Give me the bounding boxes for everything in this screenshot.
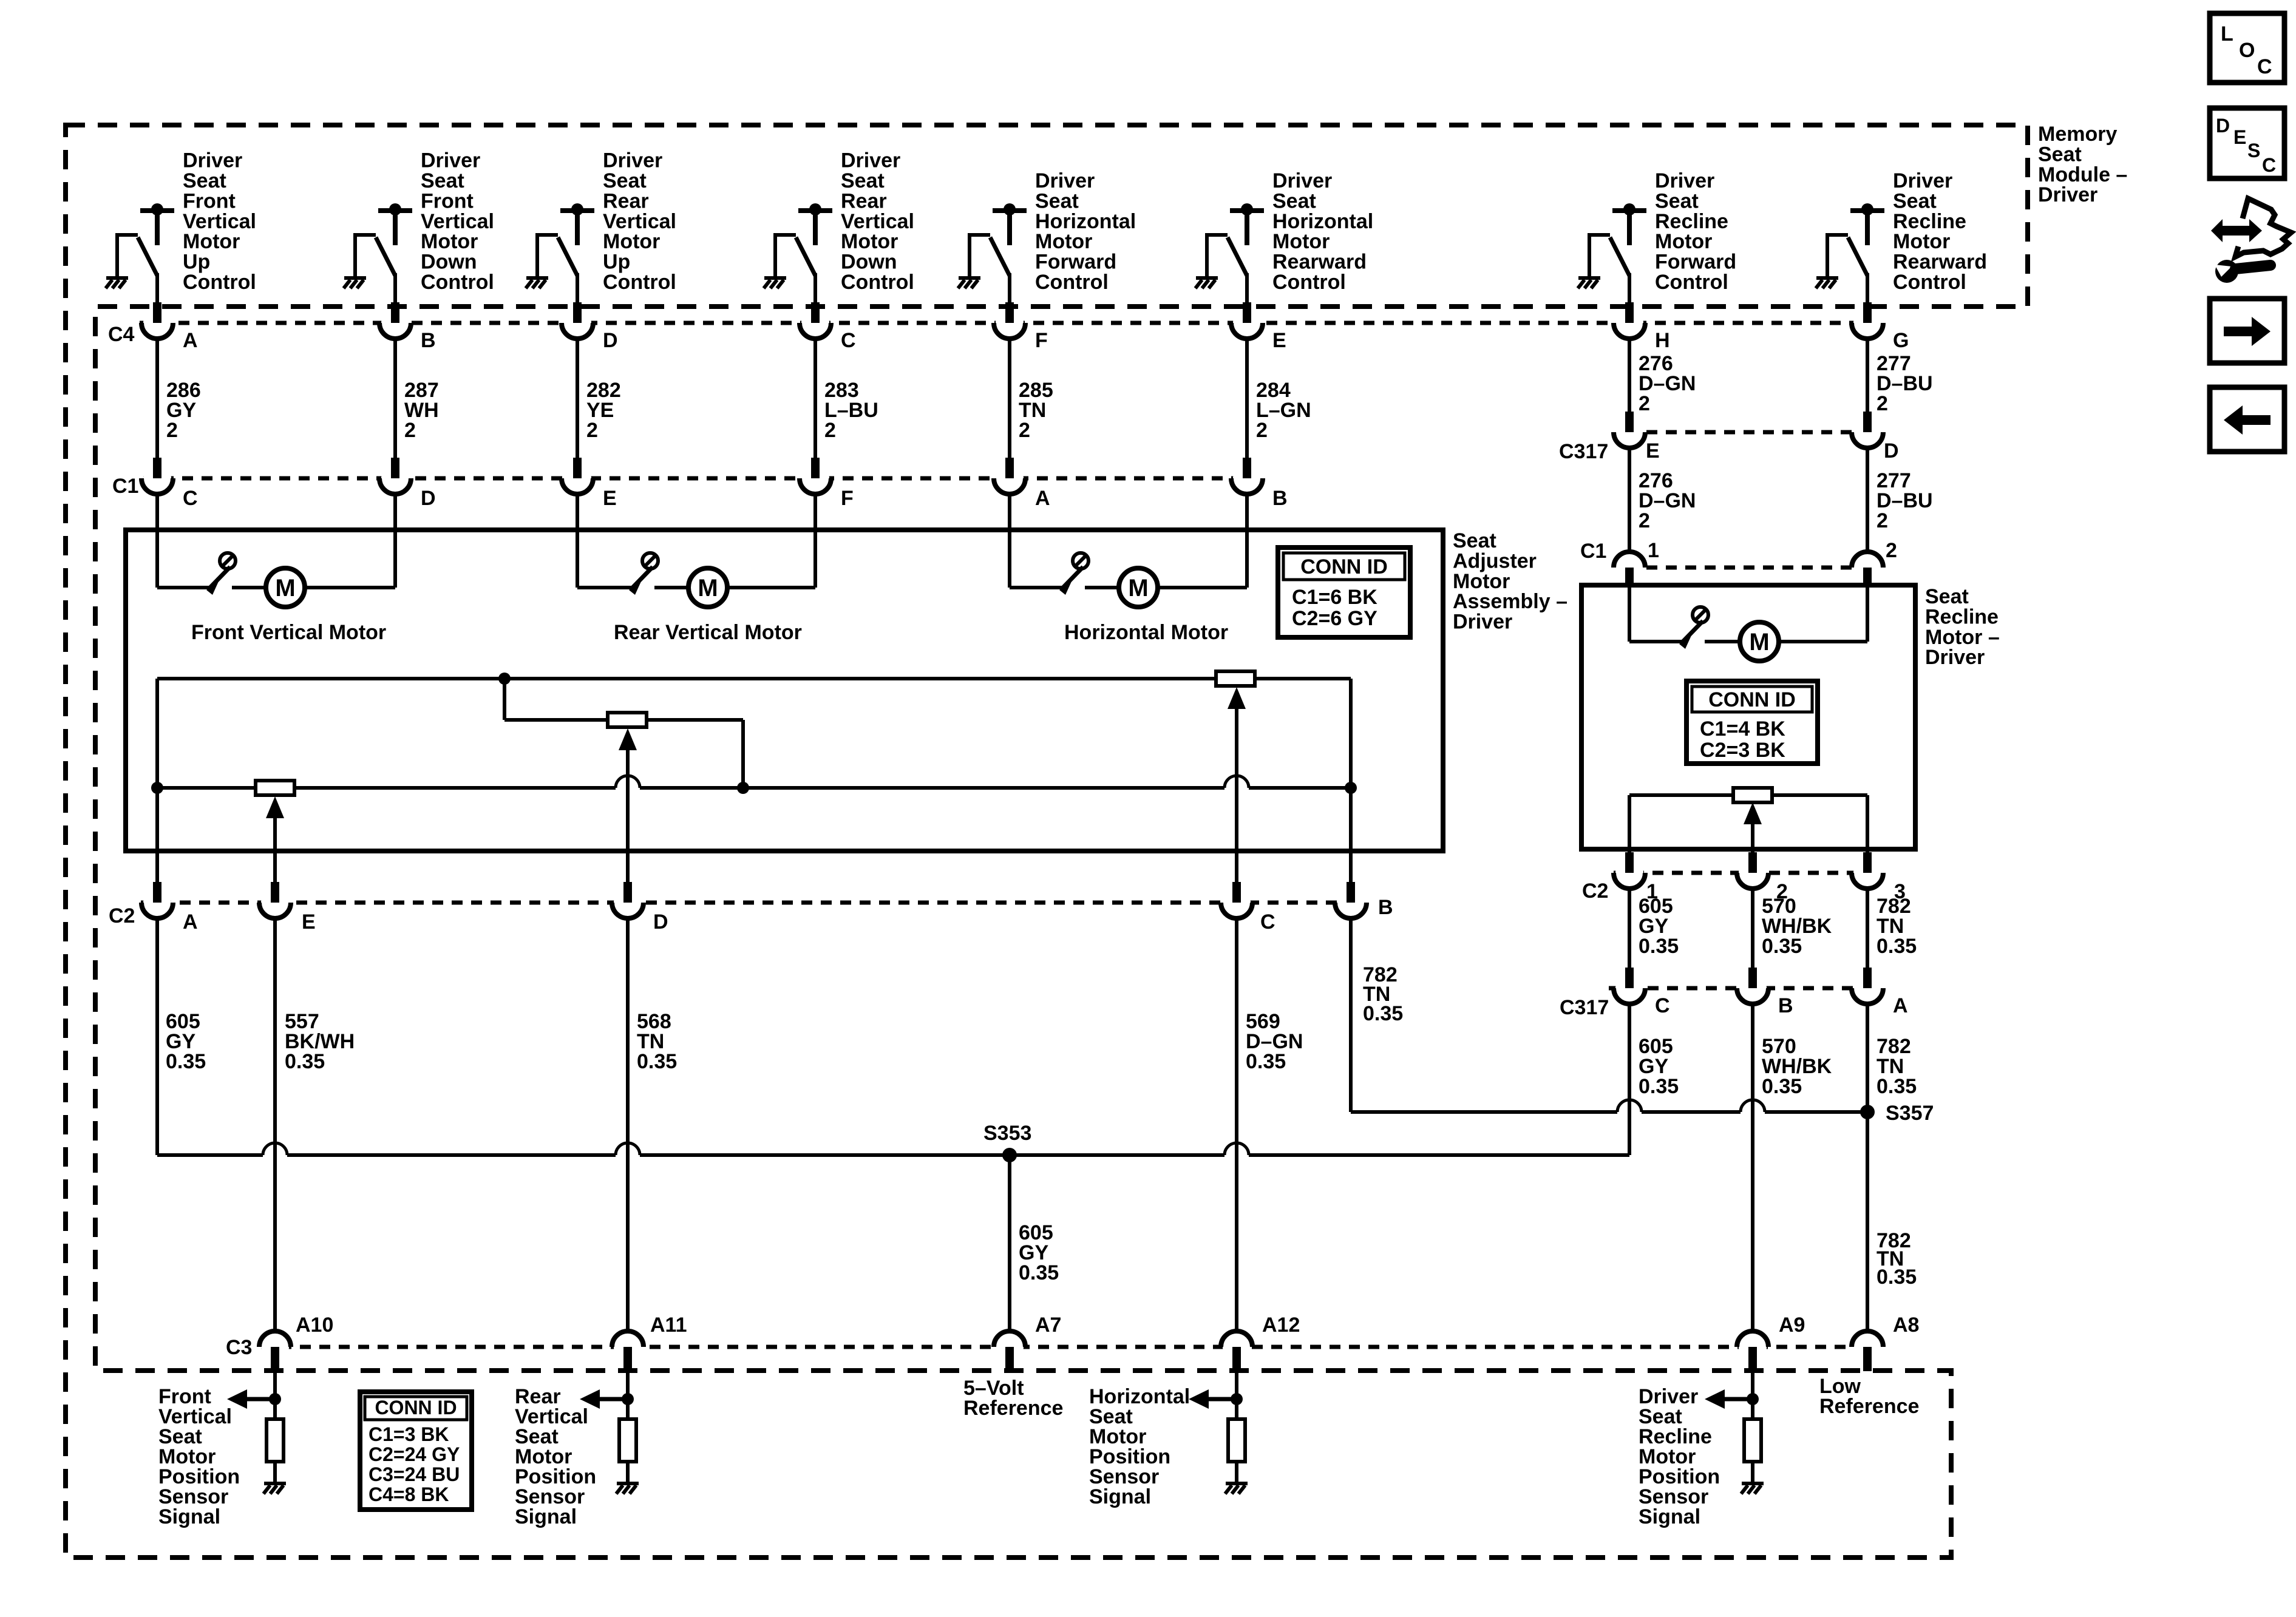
splice S357 xyxy=(1860,1105,1875,1119)
svg-text:Driver: Driver xyxy=(1035,169,1095,192)
svg-text:C2=24 GY: C2=24 GY xyxy=(369,1443,460,1465)
C4 pin H xyxy=(1614,302,1645,339)
svg-text:Up: Up xyxy=(603,251,630,274)
svg-text:C2: C2 xyxy=(109,904,135,927)
svg-text:C1=6 BK: C1=6 BK xyxy=(1292,586,1377,609)
svg-text:A: A xyxy=(1893,994,1908,1017)
S7 Driver Seat Recline Motor Forward Control switch xyxy=(1589,203,1646,308)
wire 286 xyxy=(155,339,159,458)
potentiometer rear vertical position sensor xyxy=(608,713,647,727)
C2 pin C xyxy=(1221,882,1252,918)
svg-text:Motor: Motor xyxy=(1035,230,1092,253)
svg-text:Driver: Driver xyxy=(1453,611,1512,634)
CONN ID box (module bottom) xyxy=(360,1392,472,1510)
C4 pin A xyxy=(141,302,173,339)
crossover hop at rear wiper xyxy=(616,776,640,788)
svg-text:Recline: Recline xyxy=(1925,605,1999,628)
svg-text:C: C xyxy=(1260,910,1275,934)
rear vertical position sensor feed xyxy=(503,679,506,720)
wire 283 xyxy=(813,339,817,458)
svg-text:E: E xyxy=(603,487,617,510)
svg-text:Driver: Driver xyxy=(183,149,242,172)
svg-text:E: E xyxy=(2233,126,2246,148)
svg-text:2: 2 xyxy=(404,419,416,442)
svg-text:Recline: Recline xyxy=(1655,210,1728,233)
svg-text:Horizontal Motor: Horizontal Motor xyxy=(1064,621,1228,644)
C4 pin E xyxy=(1231,302,1263,339)
wiper arrow recline sensor xyxy=(1744,802,1762,824)
C4 pin D xyxy=(562,302,593,339)
wire 276 D-GN to C1 xyxy=(1628,448,1631,553)
icon back arrow box xyxy=(2210,387,2284,452)
svg-text:Motor: Motor xyxy=(183,230,240,253)
svg-text:C: C xyxy=(183,487,198,510)
svg-text:Seat: Seat xyxy=(603,169,647,192)
svg-text:Motor: Motor xyxy=(1893,230,1950,253)
svg-text:C2=3 BK: C2=3 BK xyxy=(1700,739,1785,762)
svg-text:0.35: 0.35 xyxy=(1019,1261,1059,1284)
hop over 557 wire xyxy=(263,1143,287,1155)
motor M Seat Recline Motor xyxy=(1740,622,1779,661)
svg-text:C317: C317 xyxy=(1560,996,1609,1019)
A9 driver seat recline motor position sensor signal input, resistor, ground xyxy=(1751,1371,1754,1419)
svg-text:Seat: Seat xyxy=(841,169,885,192)
svg-text:Seat: Seat xyxy=(1893,189,1937,212)
wire recline pot right down xyxy=(1866,795,1869,852)
wire C1-B to motor xyxy=(1245,494,1249,588)
wire C1-C to motor xyxy=(155,494,159,588)
svg-text:0.35: 0.35 xyxy=(1363,1002,1403,1025)
Memory Seat Module - Driver module dashed outline xyxy=(66,125,2028,1558)
svg-text:Seat: Seat xyxy=(2038,143,2082,166)
C1 pin B xyxy=(1231,458,1263,494)
C2 pin B xyxy=(1335,882,1367,918)
svg-text:S357: S357 xyxy=(1886,1102,1934,1125)
wire 605 GY from C317-C down xyxy=(1628,1004,1631,1155)
C1 pin C xyxy=(141,458,173,494)
hop over 570 wire xyxy=(1741,1100,1765,1112)
wire 285 xyxy=(1008,339,1011,458)
svg-text:Rear: Rear xyxy=(841,189,887,212)
svg-text:Rear: Rear xyxy=(603,189,649,212)
svg-text:0.35: 0.35 xyxy=(1877,935,1917,958)
svg-text:0.35: 0.35 xyxy=(1762,935,1802,958)
svg-text:Control: Control xyxy=(1893,271,1966,294)
svg-text:C2=6 GY: C2=6 GY xyxy=(1292,607,1377,630)
hop over 605 wire xyxy=(1617,1100,1642,1112)
svg-text:M: M xyxy=(275,575,295,602)
svg-text:D: D xyxy=(421,487,436,510)
recline position sensor xyxy=(1629,793,1733,797)
svg-text:H: H xyxy=(1655,329,1670,352)
wire 277 D-BU upper xyxy=(1866,339,1869,413)
C317 pin C xyxy=(1614,968,1645,1004)
wire recline pin1 to motor xyxy=(1628,586,1631,642)
svg-text:Assembly –: Assembly – xyxy=(1453,590,1567,613)
wire C1-F to motor xyxy=(813,494,817,588)
svg-text:Motor: Motor xyxy=(603,230,660,253)
C3 pin A9 xyxy=(1737,1331,1768,1371)
svg-text:Rearward: Rearward xyxy=(1893,251,1987,274)
connector C1 row (seat recline motor, pins 1 and 2) xyxy=(1646,566,1852,570)
svg-text:Front: Front xyxy=(183,189,236,212)
svg-text:Down: Down xyxy=(421,251,477,274)
svg-text:Down: Down xyxy=(841,251,897,274)
S4 Driver Seat Rear Vertical Motor Down Control switch xyxy=(775,203,832,308)
wire 569 D-GN wiper horizontal xyxy=(1235,709,1238,882)
605 GY 5-volt reference line xyxy=(157,1153,263,1157)
horizontal motor M3 circuit xyxy=(1010,586,1063,589)
wire C1-A to motor xyxy=(1008,494,1011,588)
icon DESC box xyxy=(2210,108,2284,178)
A11 rear vertical seat motor position sensor signal input, resistor, ground xyxy=(626,1371,630,1419)
svg-text:Rearward: Rearward xyxy=(1272,251,1367,274)
svg-text:C4=8 BK: C4=8 BK xyxy=(369,1483,449,1505)
C2 pin A xyxy=(141,882,173,918)
splice S353 xyxy=(1002,1148,1017,1162)
svg-text:C317: C317 xyxy=(1559,440,1608,463)
svg-text:D: D xyxy=(653,910,668,934)
thermal protector front vertical motor xyxy=(206,553,236,595)
C1 pin E xyxy=(562,458,593,494)
wire 570 WH/BK down to A9 xyxy=(1751,1004,1754,1331)
connector C4 row xyxy=(140,321,1867,325)
svg-text:Motor: Motor xyxy=(1453,570,1510,593)
svg-text:2: 2 xyxy=(166,419,178,442)
svg-text:Driver: Driver xyxy=(1272,169,1332,192)
C1 recline pin 2 xyxy=(1852,552,1883,587)
svg-text:0.35: 0.35 xyxy=(1762,1075,1802,1098)
wire 568 TN down to A11 xyxy=(626,918,630,1331)
wire 782 TN down to A8 xyxy=(1866,1004,1869,1331)
wiper arrow rear vertical sensor xyxy=(619,728,637,750)
svg-text:Vertical: Vertical xyxy=(421,210,494,233)
svg-text:Vertical: Vertical xyxy=(603,210,676,233)
wire 557 BK/WH wiper front xyxy=(273,818,277,882)
svg-text:E: E xyxy=(302,910,316,934)
icon LOC box xyxy=(2210,13,2284,83)
C2 pin E xyxy=(259,882,291,918)
CONN ID box (recline) xyxy=(1686,681,1818,764)
svg-text:C3=24 BU: C3=24 BU xyxy=(369,1463,460,1485)
svg-text:A12: A12 xyxy=(1262,1314,1300,1337)
svg-text:Front: Front xyxy=(421,189,474,212)
wiper arrow front vertical sensor xyxy=(266,796,284,818)
wire 287 xyxy=(393,339,397,458)
svg-text:Control: Control xyxy=(1655,271,1728,294)
C1 pin A xyxy=(994,458,1025,494)
crossover hop at horizontal wiper xyxy=(1224,776,1249,788)
svg-text:Vertical: Vertical xyxy=(841,210,914,233)
svg-text:D: D xyxy=(2216,115,2230,137)
svg-text:A9: A9 xyxy=(1779,1314,1805,1337)
svg-text:A: A xyxy=(1035,487,1050,510)
svg-text:2: 2 xyxy=(1877,509,1888,532)
svg-text:Motor: Motor xyxy=(841,230,898,253)
potentiometer front vertical position sensor xyxy=(256,781,294,795)
svg-text:Recline: Recline xyxy=(1893,210,1966,233)
motor M Front Vertical Motor xyxy=(266,568,305,607)
svg-text:2: 2 xyxy=(1639,509,1650,532)
svg-text:S353: S353 xyxy=(983,1122,1031,1145)
low reference line (pot line) xyxy=(157,786,256,790)
S5 Driver Seat Horizontal Motor Forward Control switch xyxy=(970,203,1027,308)
svg-text:Control: Control xyxy=(1272,271,1346,294)
svg-text:Front Vertical Motor: Front Vertical Motor xyxy=(191,621,386,644)
wire 557 BK/WH down to A10 xyxy=(273,918,277,1331)
svg-text:Control: Control xyxy=(421,271,494,294)
svg-text:C: C xyxy=(841,329,856,352)
C3 pin A11 xyxy=(612,1331,644,1371)
wire recline wiper down xyxy=(1751,824,1754,852)
svg-text:Signal: Signal xyxy=(1639,1505,1700,1528)
potentiometer horizontal position sensor xyxy=(1216,671,1255,686)
svg-text:B: B xyxy=(1272,487,1288,510)
C3 pin A12 xyxy=(1221,1331,1252,1371)
C317 pin A xyxy=(1852,968,1883,1004)
motor M Horizontal Motor xyxy=(1119,568,1158,607)
svg-text:Seat: Seat xyxy=(183,169,226,192)
connector C317 row (lower, pins C B A) xyxy=(1609,986,1869,991)
wire 605 GY to A7 xyxy=(1008,1155,1011,1331)
C2 recline pin 2 xyxy=(1737,852,1768,889)
junction on 5V line xyxy=(498,673,511,685)
svg-text:Seat: Seat xyxy=(1925,585,1969,608)
svg-text:Module –: Module – xyxy=(2038,163,2127,186)
wire C1-E to motor xyxy=(576,494,579,588)
svg-text:C1: C1 xyxy=(1580,540,1606,563)
svg-text:Rear Vertical Motor: Rear Vertical Motor xyxy=(614,621,802,644)
connector C3 row xyxy=(261,1345,1869,1349)
thermal protector horizontal motor xyxy=(1059,553,1089,595)
svg-text:Memory: Memory xyxy=(2038,123,2117,146)
wire 282 xyxy=(576,339,579,458)
svg-text:Driver: Driver xyxy=(841,149,900,172)
rear vertical motor M2 circuit xyxy=(577,586,633,589)
C317 pin D xyxy=(1852,412,1883,448)
svg-text:0.35: 0.35 xyxy=(1877,1266,1917,1289)
C4 pin C xyxy=(800,302,831,339)
C3 pin A10 xyxy=(259,1331,291,1371)
svg-text:Motor: Motor xyxy=(1655,230,1712,253)
C2 pin D xyxy=(612,882,644,918)
svg-text:E: E xyxy=(1646,439,1660,463)
svg-text:Seat: Seat xyxy=(1655,189,1699,212)
svg-text:C2: C2 xyxy=(1582,880,1608,903)
svg-text:C1=4 BK: C1=4 BK xyxy=(1700,717,1785,741)
svg-text:A: A xyxy=(183,910,198,934)
svg-text:Driver: Driver xyxy=(1925,646,1985,669)
svg-text:Driver: Driver xyxy=(1893,169,1952,192)
svg-text:D: D xyxy=(1884,439,1899,463)
recline motor M4 circuit xyxy=(1629,640,1683,643)
svg-text:Reference: Reference xyxy=(1819,1395,1919,1418)
S1 Driver Seat Front Vertical Motor Up Control switch xyxy=(117,203,174,308)
C2 recline pin 3 xyxy=(1852,852,1883,889)
svg-text:Signal: Signal xyxy=(1089,1485,1151,1508)
A12 horizontal seat motor position sensor signal input, resistor, ground xyxy=(1235,1371,1238,1419)
svg-text:G: G xyxy=(1893,329,1909,352)
svg-text:2: 2 xyxy=(1877,392,1888,415)
thermal protector recline motor xyxy=(1679,607,1708,649)
C317 pin B xyxy=(1737,968,1768,1004)
svg-text:E: E xyxy=(1272,329,1286,352)
svg-text:Driver: Driver xyxy=(421,149,480,172)
wiper arrow horizontal sensor xyxy=(1228,687,1246,709)
svg-text:O: O xyxy=(2239,39,2255,62)
svg-text:Motor: Motor xyxy=(421,230,478,253)
svg-text:Signal: Signal xyxy=(515,1505,577,1528)
C3 pin A8 xyxy=(1852,1331,1883,1371)
svg-text:Motor –: Motor – xyxy=(1925,626,2000,649)
hop over 568 wire xyxy=(616,1143,640,1155)
svg-text:C: C xyxy=(1655,994,1670,1017)
S2 Driver Seat Front Vertical Motor Down Control switch xyxy=(355,203,412,308)
C4 pin F xyxy=(994,302,1025,339)
svg-text:F: F xyxy=(1035,329,1048,352)
svg-text:Forward: Forward xyxy=(1035,251,1116,274)
C2 recline pin 1 xyxy=(1614,852,1645,889)
wire 605 GY to C317 xyxy=(1628,889,1631,968)
svg-text:2: 2 xyxy=(1019,419,1030,442)
svg-text:M: M xyxy=(698,575,718,602)
svg-text:C: C xyxy=(2257,55,2272,78)
svg-text:B: B xyxy=(1378,896,1393,919)
svg-text:2: 2 xyxy=(824,419,836,442)
svg-text:Control: Control xyxy=(1035,271,1109,294)
wire C2-B vertical (782 TN) xyxy=(1349,788,1353,882)
wire 605 GY down to splice line xyxy=(155,918,159,1155)
svg-text:C: C xyxy=(2262,154,2276,176)
CONN ID box (seat adjuster) xyxy=(1278,547,1410,637)
svg-text:Horizontal: Horizontal xyxy=(1035,210,1136,233)
svg-text:A11: A11 xyxy=(650,1314,687,1337)
svg-text:C1=3 BK: C1=3 BK xyxy=(369,1423,449,1445)
svg-text:Motor: Motor xyxy=(1272,230,1330,253)
connector C2 row (seat adjuster) xyxy=(141,901,1351,905)
svg-text:Seat: Seat xyxy=(421,169,464,192)
svg-text:0.35: 0.35 xyxy=(1639,1075,1679,1098)
C1 pin D xyxy=(379,458,411,494)
C4 pin B xyxy=(379,302,411,339)
svg-text:Driver: Driver xyxy=(1655,169,1714,192)
svg-text:L: L xyxy=(2221,22,2233,46)
svg-text:CONN ID: CONN ID xyxy=(375,1397,457,1419)
svg-text:D: D xyxy=(603,329,618,352)
svg-text:B: B xyxy=(421,329,436,352)
Seat Adjuster Motor Assembly - Driver box xyxy=(126,530,1443,851)
svg-text:C3: C3 xyxy=(226,1336,252,1359)
svg-text:Control: Control xyxy=(603,271,676,294)
svg-text:2: 2 xyxy=(1256,419,1268,442)
wire 276 D-GN upper xyxy=(1628,339,1631,413)
svg-text:Seat: Seat xyxy=(1272,189,1316,212)
hop over 569 wire xyxy=(1224,1143,1249,1155)
motor M Rear Vertical Motor xyxy=(688,568,727,607)
connector C317 row (upper, pins E and D) xyxy=(1646,430,1852,435)
svg-text:Vertical: Vertical xyxy=(183,210,256,233)
svg-text:C4: C4 xyxy=(108,323,135,346)
svg-text:Signal: Signal xyxy=(158,1505,220,1528)
wire 569 D-GN down to A12 xyxy=(1235,918,1238,1331)
svg-text:2: 2 xyxy=(1639,392,1650,415)
svg-text:C1: C1 xyxy=(112,475,138,498)
wire C2-A vertical (605 GY) xyxy=(155,679,159,882)
Seat Recline Motor - Driver box xyxy=(1581,585,1915,849)
svg-text:2: 2 xyxy=(586,419,598,442)
svg-text:0.35: 0.35 xyxy=(1639,935,1679,958)
5-volt reference line inside adjuster box xyxy=(157,677,1216,680)
svg-text:Up: Up xyxy=(183,251,210,274)
svg-text:S: S xyxy=(2247,140,2260,161)
icon wrench / component adjust view xyxy=(2235,198,2291,257)
svg-text:Forward: Forward xyxy=(1655,251,1736,274)
svg-text:A: A xyxy=(183,329,198,352)
C3 pin A7 xyxy=(994,1331,1025,1371)
svg-text:Adjuster: Adjuster xyxy=(1453,549,1537,572)
svg-text:Seat: Seat xyxy=(1453,529,1496,552)
svg-text:A8: A8 xyxy=(1893,1314,1919,1337)
svg-text:Seat: Seat xyxy=(1035,189,1079,212)
782 TN low reference line xyxy=(1349,918,1353,1112)
icon forward arrow box xyxy=(2210,299,2284,363)
wire C1-D to motor xyxy=(393,494,397,588)
C317 pin E xyxy=(1614,412,1645,448)
svg-text:0.35: 0.35 xyxy=(285,1050,325,1073)
svg-text:B: B xyxy=(1778,994,1793,1017)
svg-text:1: 1 xyxy=(1648,539,1659,562)
svg-text:Driver: Driver xyxy=(603,149,662,172)
C4 pin G xyxy=(1852,302,1883,339)
front vertical motor M1 circuit xyxy=(157,586,210,589)
wire 782 TN to C317 xyxy=(1866,889,1869,968)
svg-text:CONN ID: CONN ID xyxy=(1300,555,1388,578)
svg-text:0.35: 0.35 xyxy=(637,1050,677,1073)
connector C1 row (seat adjuster) xyxy=(143,476,1247,481)
S3 Driver Seat Rear Vertical Motor Up Control switch xyxy=(537,203,594,308)
svg-text:Control: Control xyxy=(183,271,256,294)
svg-text:0.35: 0.35 xyxy=(1877,1075,1917,1098)
svg-text:0.35: 0.35 xyxy=(1246,1050,1286,1073)
junction horizontal sensor right xyxy=(1345,782,1357,794)
wire 568 TN wiper rear xyxy=(626,750,630,882)
svg-text:M: M xyxy=(1128,575,1148,602)
svg-text:A10: A10 xyxy=(296,1314,333,1337)
C1 pin F xyxy=(800,458,831,494)
wire recline pot left down xyxy=(1628,795,1631,852)
svg-text:M: M xyxy=(1749,629,1769,656)
junction 5V vertical / pot line xyxy=(151,782,163,794)
svg-text:A7: A7 xyxy=(1035,1314,1061,1337)
C1 recline pin 1 xyxy=(1614,552,1645,587)
svg-text:0.35: 0.35 xyxy=(166,1050,206,1073)
svg-text:F: F xyxy=(841,487,854,510)
junction rear sensor to low ref line xyxy=(737,782,749,794)
svg-text:Horizontal: Horizontal xyxy=(1272,210,1373,233)
svg-text:2: 2 xyxy=(1886,539,1897,562)
potentiometer recline position sensor xyxy=(1733,788,1772,802)
svg-text:Control: Control xyxy=(841,271,914,294)
svg-text:CONN ID: CONN ID xyxy=(1708,688,1796,711)
wire 284 xyxy=(1245,339,1249,458)
wire recline pin2 to motor xyxy=(1866,586,1869,642)
svg-text:Reference: Reference xyxy=(963,1397,1063,1420)
wire 277 D-BU to C1 xyxy=(1866,448,1869,553)
thermal protector rear vertical motor xyxy=(629,553,658,595)
wire 570 WH/BK to C317 xyxy=(1751,889,1754,968)
connector C2 row (recline, pins 1 2 3) xyxy=(1614,871,1869,875)
svg-text:Driver: Driver xyxy=(2038,183,2097,206)
